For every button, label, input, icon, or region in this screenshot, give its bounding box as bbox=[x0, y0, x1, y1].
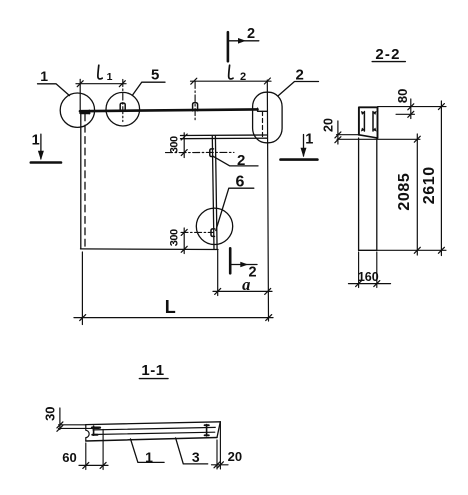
dimension 300 bottom tick upper bbox=[181, 229, 187, 235]
dimension 300 bottom line bbox=[183, 228, 185, 254]
panel top edge (plan) bbox=[80, 109, 258, 111]
extension 60 right bbox=[102, 430, 104, 470]
section 2-2: shaft right edge bbox=[376, 138, 378, 250]
extension 60 left bbox=[85, 443, 87, 470]
svg-text:30: 30 bbox=[43, 406, 58, 420]
dimension 300 top tick upper bbox=[181, 134, 187, 140]
extension line L left bbox=[81, 252, 83, 325]
section 1-1: bar line 2 bbox=[93, 432, 215, 434]
label 1 leader (1-1) bbox=[131, 439, 165, 463]
svg-text:2: 2 bbox=[240, 71, 246, 83]
dimension 2610 line bbox=[440, 101, 442, 256]
dimension L line bbox=[74, 317, 273, 319]
svg-text:6: 6 bbox=[236, 173, 245, 190]
dimension a tick left bbox=[215, 288, 221, 294]
extension 20 left (1-1) bbox=[216, 440, 218, 469]
dimension 20 line (2-2) bbox=[337, 121, 339, 144]
dimension l1 tick right bbox=[119, 81, 125, 87]
svg-text:2: 2 bbox=[237, 152, 245, 169]
label 2 leader (anchor) bbox=[213, 156, 258, 166]
extension 30 upper bbox=[59, 424, 86, 426]
ledge bottom line bbox=[181, 137, 268, 140]
svg-text:1: 1 bbox=[305, 132, 313, 148]
section 1-1: bar hook left bbox=[92, 427, 100, 429]
svg-text:2: 2 bbox=[247, 26, 255, 42]
extension 160 left bbox=[358, 252, 360, 288]
dimension L tick right bbox=[266, 315, 272, 321]
corner extension line bbox=[79, 79, 81, 110]
dimension 30 line (1-1) bbox=[59, 408, 61, 430]
svg-text:1: 1 bbox=[107, 71, 113, 83]
anchor item 2 bbox=[210, 149, 214, 157]
dim text l1 bbox=[98, 65, 102, 79]
section marker 2 bottom arrow bbox=[230, 264, 257, 266]
svg-text:80: 80 bbox=[395, 89, 410, 103]
label 1 leader bbox=[38, 84, 70, 96]
section marker 2 bottom line bbox=[229, 248, 232, 273]
section 2-2: anchor bar right bbox=[372, 112, 374, 132]
plan left edge hidden (dashed) bbox=[84, 114, 86, 247]
label 2 leader (top right) bbox=[278, 82, 319, 97]
dimension 300 top line bbox=[183, 133, 185, 158]
callout ellipse 2 bbox=[253, 92, 283, 143]
section 2-2: shaft left edge bbox=[358, 138, 360, 250]
dimension a tick right bbox=[265, 288, 271, 294]
extension 80 lower bbox=[396, 113, 415, 115]
title underline 2-2 bbox=[372, 61, 405, 63]
end post hidden line (dashed) bbox=[262, 112, 264, 138]
callout circle 6 bbox=[196, 208, 232, 244]
svg-text:60: 60 bbox=[62, 450, 76, 465]
svg-text:2085: 2085 bbox=[396, 173, 413, 211]
section 1-1: bar line 1 bbox=[93, 427, 215, 430]
svg-text:5: 5 bbox=[151, 67, 159, 84]
extension 20 right (1-1) bbox=[219, 422, 221, 469]
vertical partition left line bbox=[212, 136, 214, 249]
svg-text:20: 20 bbox=[228, 449, 242, 464]
section 2-2: block outline bbox=[359, 107, 378, 138]
section 1-1: bar hook right bbox=[206, 425, 208, 436]
dimension 60 line (1-1) bbox=[79, 464, 108, 466]
extension 20 upper bbox=[337, 134, 360, 136]
anchor axis (item 6) bbox=[181, 231, 214, 233]
anchor axis (item 2) bbox=[166, 151, 235, 153]
label 3 leader (1-1) bbox=[176, 438, 208, 464]
panel right end step bbox=[258, 108, 268, 111]
section marker 1 right arrow bbox=[303, 135, 305, 157]
dimension 80 line (2-2) bbox=[410, 99, 412, 119]
section 2-2: anchor bar left bbox=[363, 112, 365, 132]
anchor item 5 bbox=[120, 103, 125, 111]
svg-text:300: 300 bbox=[169, 229, 181, 246]
svg-text:2: 2 bbox=[296, 66, 304, 83]
svg-text:1-1: 1-1 bbox=[141, 362, 164, 379]
dimension 2085 line bbox=[416, 134, 418, 255]
anchor axis (mid) bbox=[194, 81, 196, 121]
svg-text:300: 300 bbox=[168, 136, 180, 153]
label 5 leader bbox=[132, 82, 165, 95]
extension bottom (2085/2610) bbox=[377, 249, 446, 251]
svg-text:1: 1 bbox=[145, 449, 153, 465]
section 2-2: block bottom slant bbox=[359, 135, 378, 138]
dim text l2 bbox=[229, 65, 233, 79]
section 1-1: left end with notch bbox=[86, 425, 89, 441]
anchor item 6 bbox=[211, 229, 215, 237]
section marker 2 top line bbox=[227, 32, 230, 61]
svg-text:2-2: 2-2 bbox=[375, 46, 400, 63]
dimension 300 top tick lower bbox=[181, 150, 187, 156]
dimension 160 line bbox=[349, 283, 391, 285]
title underline 1-1 bbox=[139, 378, 168, 380]
svg-text:3: 3 bbox=[192, 449, 200, 465]
dimension 20 line (1-1) bbox=[212, 464, 229, 466]
ledge top line bbox=[181, 134, 268, 137]
extension 20 lower / 2085 upper bbox=[337, 138, 420, 140]
dimension l2 tick left bbox=[191, 78, 197, 84]
callout circle 1 bbox=[60, 93, 94, 127]
svg-text:20: 20 bbox=[322, 118, 336, 132]
section 1-1: slab top bbox=[86, 422, 221, 425]
svg-text:L: L bbox=[165, 297, 176, 317]
section marker 2 top arrow bbox=[228, 40, 259, 42]
section marker 1 left line bbox=[31, 161, 61, 164]
anchor mid (unlabeled) bbox=[193, 103, 198, 111]
svg-text:1: 1 bbox=[40, 68, 48, 84]
dimension l2 tick right bbox=[264, 78, 270, 84]
plan bottom edge bbox=[81, 248, 219, 251]
vertical partition right line bbox=[215, 136, 217, 249]
extension 160 right bbox=[376, 252, 378, 288]
extension 30 lower bbox=[59, 427, 100, 429]
svg-text:1: 1 bbox=[32, 133, 40, 149]
extension line a left bbox=[217, 251, 219, 296]
dimension l1 tick left bbox=[77, 81, 83, 87]
section 1-1: right end slant bbox=[217, 422, 220, 438]
section marker 1 left arrow bbox=[40, 134, 42, 159]
section 2-2: shaft bottom edge bbox=[359, 249, 377, 251]
section marker 1 right line bbox=[281, 158, 318, 161]
anchor axis (item 5) bbox=[122, 80, 124, 122]
dimension l1 line bbox=[76, 83, 126, 85]
section 1-1: slab bottom bbox=[86, 438, 217, 442]
label 6 leader bbox=[216, 188, 254, 230]
right extension line bbox=[267, 80, 268, 321]
panel left end notch bbox=[81, 112, 90, 114]
dimension l2 line bbox=[191, 80, 272, 82]
plan left edge bbox=[80, 112, 82, 249]
dimension a line bbox=[213, 290, 272, 292]
svg-text:2610: 2610 bbox=[421, 166, 438, 204]
dimension 300 bottom tick lower bbox=[181, 246, 187, 252]
svg-text:160: 160 bbox=[358, 270, 379, 284]
svg-text:a: a bbox=[242, 275, 250, 294]
callout circle 5 bbox=[106, 92, 140, 126]
extension top (80/2610) bbox=[378, 106, 446, 108]
dimension L tick left bbox=[80, 315, 86, 321]
